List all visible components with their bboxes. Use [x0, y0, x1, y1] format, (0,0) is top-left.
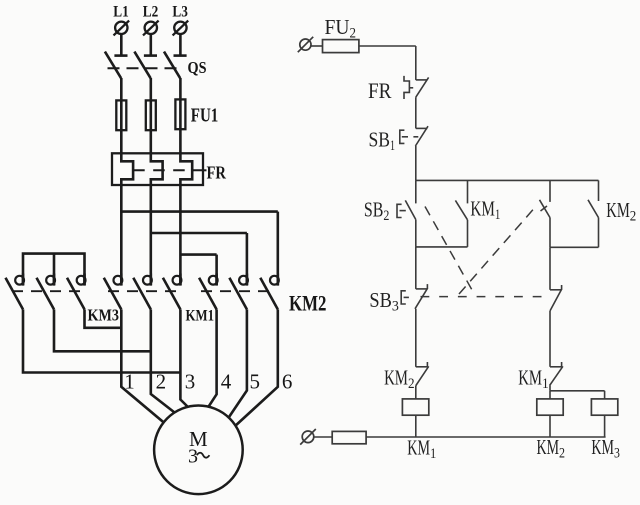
coil KM2 — [537, 399, 563, 415]
label KM1 aux — [470, 197, 500, 224]
wire control rail — [416, 179, 599, 181]
label L1 — [113, 4, 129, 21]
wire SB2 KM1aux merge — [416, 220, 468, 247]
coil KM3 — [591, 399, 617, 415]
label KM3 — [88, 305, 120, 324]
wire FU2 to main column — [359, 46, 416, 80]
label KM2 aux — [606, 198, 636, 225]
svg-text:L2: L2 — [143, 4, 159, 21]
switch QS pole 3 — [164, 52, 187, 101]
wire merge to SB3 — [415, 247, 417, 289]
wire KM2NC to coil KM1 — [415, 386, 417, 399]
label L3 — [172, 4, 188, 21]
svg-text:SB: SB — [369, 127, 391, 151]
svg-text:KM: KM — [537, 435, 560, 459]
svg-text:KM: KM — [470, 197, 495, 221]
contact KM2 interlock NC — [416, 362, 429, 386]
fuse FU2 — [323, 40, 359, 53]
QS linkage dashed — [108, 67, 182, 69]
svg-text:3: 3 — [392, 298, 399, 314]
wire FR to SB1 — [415, 97, 417, 128]
button SB3 normally-closed — [401, 284, 427, 309]
label KM2 main — [289, 290, 327, 315]
wire rail drop SB2 — [415, 180, 417, 203]
svg-text:5: 5 — [249, 370, 260, 394]
fuse FU1 pole 2 — [146, 100, 156, 153]
wire motor lead 2 — [151, 309, 177, 414]
linkage horizontal dashed — [421, 296, 548, 298]
svg-text:FR: FR — [368, 78, 392, 103]
svg-text:6: 6 — [282, 370, 293, 394]
contactor KM2 main contact 1 — [199, 274, 218, 310]
svg-text:3: 3 — [185, 370, 196, 394]
label SB1 — [369, 127, 396, 154]
wire motor lead 4 — [207, 309, 217, 409]
node terminal 3 — [185, 370, 196, 394]
svg-text:1: 1 — [390, 138, 395, 154]
label KM2 coil — [537, 435, 566, 462]
svg-text:1: 1 — [495, 207, 501, 223]
label KM1 main — [186, 308, 215, 325]
wire motor lead 3 — [180, 309, 191, 410]
node terminal 1 — [124, 370, 135, 394]
wire control bottom rail — [366, 436, 605, 438]
FR box dashed line — [133, 169, 206, 171]
contact KM2 auxiliary NO — [588, 200, 599, 218]
control terminal top — [298, 37, 313, 52]
wire phase3 down — [179, 185, 182, 286]
fuse bottom — [332, 431, 366, 443]
wire motor lead 5 — [227, 309, 247, 420]
FR heater symbol — [404, 76, 413, 99]
contact KM1 interlock NC — [550, 362, 563, 386]
label SB3 — [369, 288, 399, 315]
label KM1 interlock — [518, 366, 549, 393]
svg-text:KM: KM — [384, 366, 408, 390]
label KM2 interlock — [384, 366, 415, 393]
wire KM3 pole3 to terminal1 — [85, 309, 122, 327]
control terminal bottom — [300, 429, 316, 445]
wire SB3NO KM2aux merge — [550, 218, 599, 248]
svg-text:2: 2 — [156, 370, 167, 394]
label FR — [207, 162, 227, 182]
contact SB3 linked NO — [540, 200, 551, 218]
svg-text:2: 2 — [350, 26, 357, 42]
linkage SB3 diagonal dashed — [459, 206, 547, 294]
wire phase1 down — [120, 185, 123, 286]
wire phase1 to KM2 right pole — [121, 212, 277, 286]
node terminal 2 — [156, 370, 167, 394]
switch QS pole 2 — [134, 52, 157, 101]
svg-text:KM: KM — [606, 198, 630, 222]
node terminal 4 — [221, 370, 232, 394]
wire merge to SB2NC — [549, 247, 551, 289]
contactor KM3 main contact 1 — [6, 274, 25, 310]
FR heater element 2 — [151, 153, 163, 185]
label FU2 — [325, 15, 357, 42]
svg-text:FR: FR — [207, 162, 227, 182]
wire terminal to FU2 — [311, 45, 323, 47]
contactor KM3 main contact 2 — [37, 274, 55, 310]
terminal L2 — [143, 21, 159, 56]
svg-text:KM1: KM1 — [186, 308, 215, 325]
button SB2 normally-open — [397, 200, 416, 219]
label KM3 coil — [591, 435, 620, 462]
wire coil KM3 to rail — [604, 415, 606, 437]
KM2 linkage dashed — [201, 290, 272, 292]
wire KM3 pole2 to terminal2 — [54, 309, 151, 351]
wire SB1 to rail — [415, 146, 417, 180]
thermal relay FR box — [112, 153, 203, 185]
terminal L1 — [114, 21, 130, 56]
wire KM1NC branch — [550, 386, 605, 391]
svg-text:1: 1 — [430, 446, 436, 462]
wire branch to coil KM2 — [549, 391, 551, 399]
svg-text:KM: KM — [591, 435, 614, 459]
label FU1 — [191, 105, 219, 127]
coil KM1 — [402, 399, 428, 415]
contact KM1 auxiliary NO — [455, 200, 467, 219]
svg-text:L1: L1 — [113, 4, 129, 21]
svg-text:2: 2 — [408, 376, 415, 392]
FR heater element 3 — [180, 153, 192, 185]
svg-text:SB: SB — [369, 288, 392, 312]
svg-text:FU1: FU1 — [191, 105, 219, 127]
wire rail drop KM1aux — [467, 180, 469, 203]
svg-text:QS: QS — [188, 58, 207, 77]
svg-text:KM3: KM3 — [88, 305, 120, 324]
motor M circle — [154, 406, 243, 495]
label KM1 coil — [407, 436, 436, 463]
terminal L3 — [173, 21, 189, 56]
wire motor lead 6 — [234, 309, 278, 427]
contactor KM1 main contact 3 — [163, 274, 182, 310]
button SB1 normally-closed — [400, 126, 428, 146]
wire coil KM1 to rail — [415, 415, 417, 437]
wire KM3 pole1 to terminal3 — [23, 309, 180, 372]
label FR control — [368, 78, 392, 103]
KM3 linkage dashed — [12, 290, 80, 292]
svg-text:SB: SB — [364, 198, 384, 222]
FR heater element 1 — [121, 153, 133, 185]
contactor KM2 main contact 3 — [260, 274, 279, 310]
node terminal 6 — [282, 370, 293, 394]
wire coil KM2 to rail — [549, 415, 551, 437]
svg-text:2: 2 — [383, 208, 389, 224]
svg-text:KM: KM — [518, 366, 542, 390]
contact FR normally-closed — [416, 77, 429, 97]
svg-text:4: 4 — [221, 370, 232, 394]
contactor KM3 main contact 3 — [67, 274, 86, 310]
svg-text:3: 3 — [614, 446, 620, 462]
svg-text:FU: FU — [325, 15, 350, 39]
motor label 3~ — [188, 445, 209, 467]
wire rail drop KM2aux — [598, 180, 600, 201]
contactor KM1 main contact 1 — [104, 274, 123, 310]
wire phase2 to KM2 mid pole — [151, 233, 247, 286]
wire SB3 to KM2NC — [415, 309, 417, 367]
wire terminal to bottom fuse — [314, 436, 332, 438]
KM1 linkage dashed — [108, 290, 176, 292]
contact SB2 linked NC — [550, 285, 562, 311]
svg-text:1: 1 — [124, 370, 135, 394]
label L2 — [143, 4, 159, 21]
svg-text:KM: KM — [407, 436, 430, 460]
wire rail drop SB3NO — [549, 180, 551, 202]
svg-text:1: 1 — [542, 376, 549, 392]
linkage SB2 diagonal dashed — [425, 207, 474, 294]
wire motor lead 1 — [121, 309, 165, 423]
switch QS pole 1 — [105, 52, 128, 101]
svg-text:2: 2 — [559, 446, 565, 462]
wire branch to coil KM3 — [604, 391, 606, 399]
contactor KM2 main contact 2 — [229, 274, 248, 310]
KM3 star bus — [23, 254, 85, 286]
svg-text:L3: L3 — [172, 4, 188, 21]
node terminal 5 — [249, 370, 260, 394]
svg-text:3: 3 — [188, 445, 198, 467]
motor label M — [189, 427, 208, 451]
label QS — [188, 58, 207, 77]
svg-text:2: 2 — [630, 209, 637, 225]
label SB2 — [364, 198, 390, 225]
wire SB2NC to KM1NC — [549, 311, 551, 367]
fuse FU1 pole 1 — [116, 100, 126, 153]
wire phase3 to KM2 left pole — [180, 255, 216, 286]
fuse FU1 pole 3 — [175, 99, 185, 153]
contactor KM1 main contact 2 — [133, 274, 152, 310]
svg-text:KM2: KM2 — [289, 290, 327, 315]
wire phase2 down — [150, 185, 153, 286]
